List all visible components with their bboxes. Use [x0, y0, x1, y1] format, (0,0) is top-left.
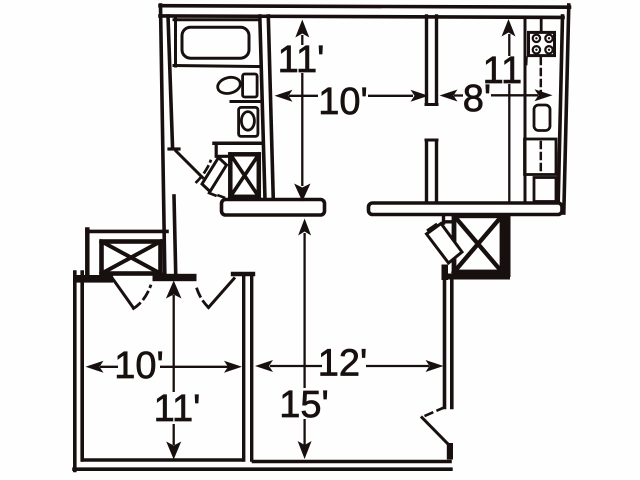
- top-left closet hook: [216, 143, 228, 156]
- hall wall bar left: [222, 200, 325, 216]
- arrow 8ft right: [535, 89, 553, 101]
- toilet tank line: [231, 100, 260, 103]
- outer left wall: [161, 5, 165, 273]
- top-left closet door dashes: [209, 193, 224, 198]
- burners: [533, 35, 540, 42]
- dim 10' top: [289, 95, 318, 97]
- entry stub wall: [447, 443, 453, 460]
- kitchen cabinet box 1: [525, 139, 557, 175]
- bedroom door 2 leaf: [209, 279, 235, 308]
- dividing wall top cap: [233, 272, 253, 276]
- arrow 10ft right: [411, 90, 429, 102]
- wall stub lower: [425, 141, 428, 203]
- svg-text:11': 11': [278, 39, 325, 81]
- arrow 10ft left: [275, 90, 293, 102]
- entry door dashes: [424, 408, 445, 417]
- dim bedroom 10': [100, 366, 118, 368]
- arrow bedroom 11ft up: [166, 281, 182, 299]
- arrow bedroom 10ft left: [86, 361, 104, 373]
- svg-text:10': 10': [318, 81, 368, 123]
- svg-text:12': 12': [318, 342, 368, 384]
- arrow 8ft left: [440, 90, 458, 102]
- left closet top wall: [87, 230, 167, 234]
- svg-text:11': 11': [154, 388, 201, 430]
- bathroom right wall: [260, 16, 265, 200]
- bedroom door 1 arc: [134, 286, 151, 309]
- arrow bedroom 11ft down: [166, 442, 181, 460]
- svg-text:11': 11': [483, 50, 530, 92]
- top-left closet door panel: [202, 158, 227, 192]
- arrow room1 11ft down: [294, 184, 310, 202]
- bathtub alcove walls: [174, 18, 177, 66]
- right closet right wall: [504, 215, 511, 277]
- right closet door dashes: [428, 225, 436, 231]
- kitchen sink: [534, 105, 550, 131]
- svg-text:10': 10': [114, 345, 164, 387]
- stove: [529, 32, 555, 55]
- bathtub: [182, 27, 249, 58]
- top-left closet X box: [230, 154, 258, 197]
- outer top wall: [160, 6, 570, 8]
- toilet: [239, 107, 258, 136]
- dim kitchen 11': [508, 34, 510, 56]
- arrow 12ft left: [255, 360, 273, 372]
- left closet left wall: [85, 230, 90, 279]
- top-left closet top line: [214, 142, 261, 146]
- kitchen counter dashed centerline upper: [540, 58, 543, 102]
- arrow 15ft down: [298, 441, 312, 459]
- dim room1 11' vertical: [301, 35, 303, 45]
- right closet door panel: [427, 224, 463, 264]
- bedroom top wall segments: [76, 275, 113, 283]
- svg-text:15': 15': [279, 384, 329, 426]
- bedroom door 2 arc: [197, 288, 209, 308]
- arrow 15ft up: [298, 219, 311, 236]
- arrow room1 11ft up: [295, 20, 309, 38]
- dim 15': [303, 233, 305, 388]
- right closet bottom wall: [448, 274, 510, 280]
- dividing wall bedroom/living: [242, 276, 245, 460]
- dim 12': [270, 365, 322, 367]
- bathroom door leaf: [176, 151, 203, 178]
- dim 8': [454, 94, 463, 96]
- outer right wall: [558, 16, 563, 211]
- right closet X box: [454, 216, 502, 272]
- wall stub upper (between rooms): [425, 16, 428, 104]
- kitchen cabinet box 2: [534, 178, 556, 202]
- bottom walls: [83, 458, 242, 462]
- hall wall bar right: [369, 203, 563, 215]
- kitchen top divider: [540, 18, 543, 31]
- entry door leaf: [422, 418, 448, 444]
- arrow 12ft right: [426, 360, 444, 372]
- sink vanity: [243, 74, 258, 97]
- living room right wall (12ft wall): [443, 280, 447, 408]
- left closet X box: [102, 242, 161, 274]
- kitchen counter edge line: [524, 18, 527, 202]
- arrow kitchen 11ft up: [502, 19, 516, 37]
- dim bedroom 11': [173, 295, 175, 392]
- bedroom door 1 leaf: [113, 279, 134, 309]
- arrow bedroom 10ft right: [224, 361, 242, 373]
- bathroom door jamb tick: [169, 147, 179, 150]
- bathroom door arc dashes: [197, 161, 211, 182]
- bedroom left wall: [73, 272, 77, 471]
- right closet hook: [444, 215, 453, 223]
- sink bowl: [216, 75, 242, 96]
